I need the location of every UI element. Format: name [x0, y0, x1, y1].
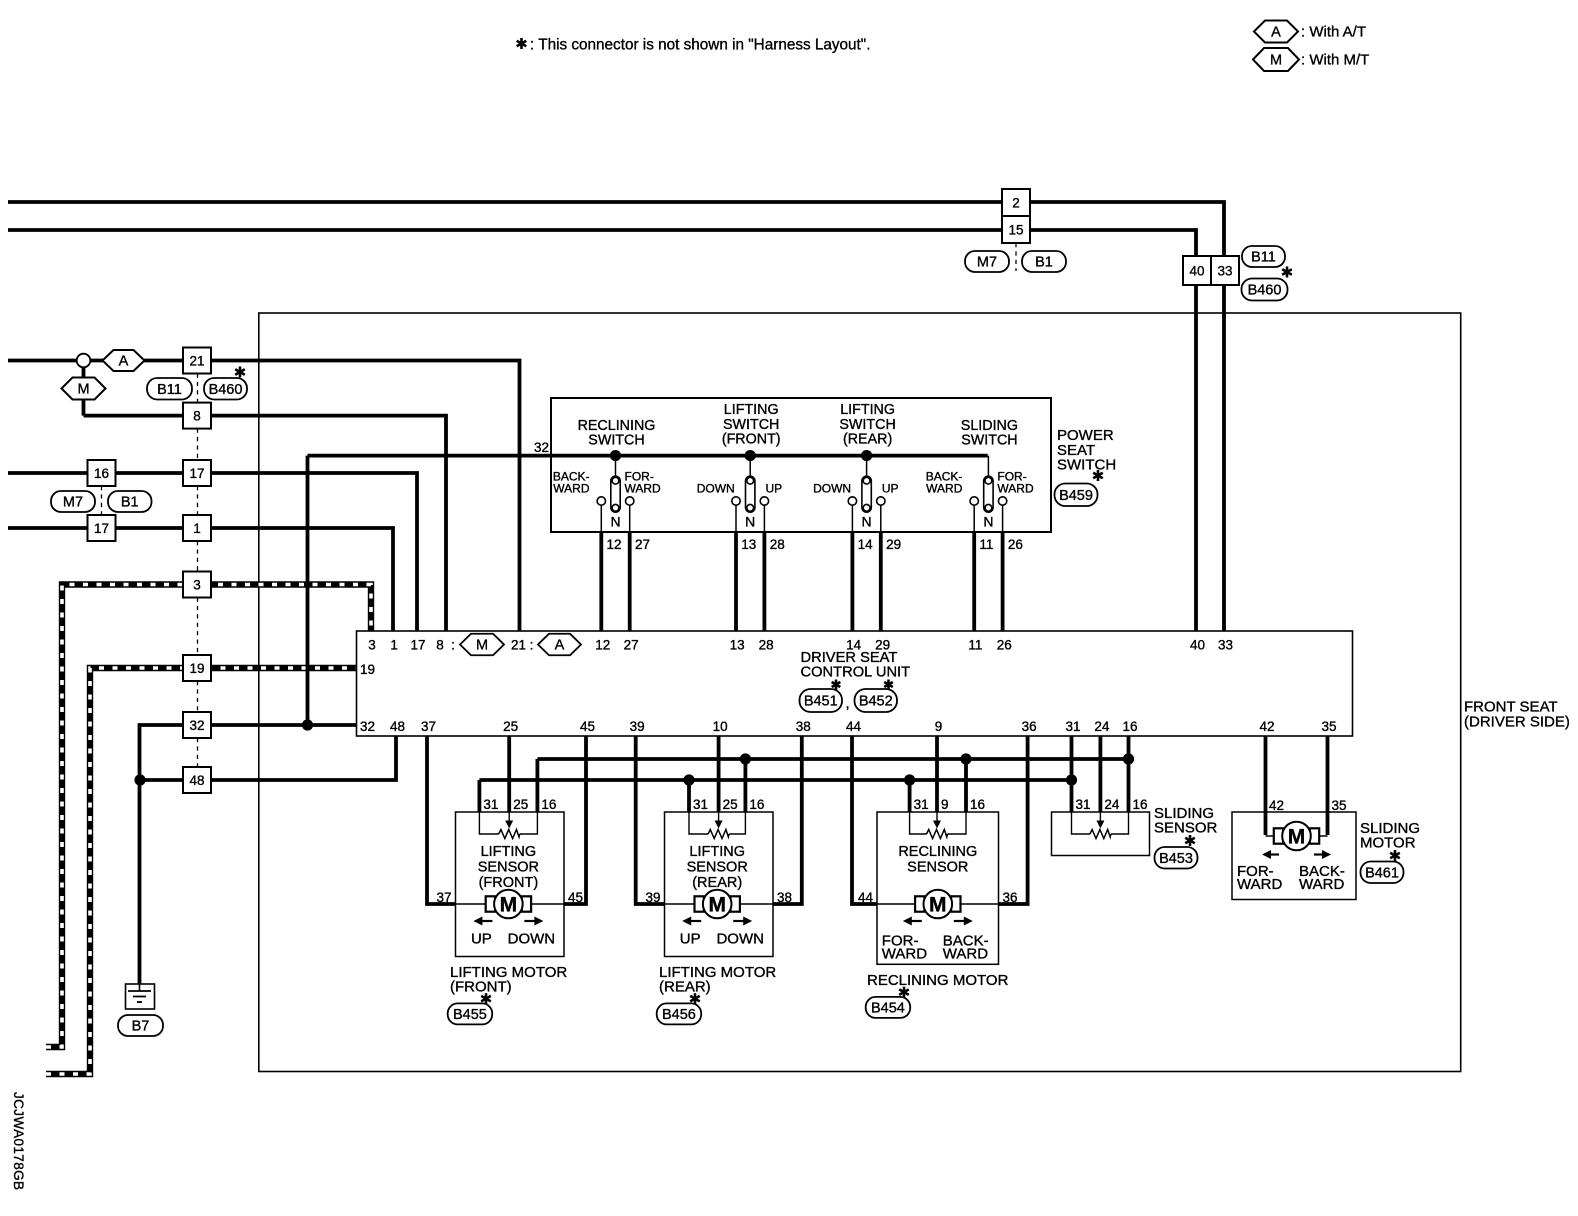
motor M symbol lifting motor rear: [695, 890, 740, 919]
svg-text:31: 31: [914, 797, 929, 812]
svg-text:: This connector is not shown: : This connector is not shown in "Harnes…: [530, 37, 870, 54]
connector oval B454: [866, 997, 911, 1018]
svg-text:37: 37: [421, 719, 436, 734]
label left contact BACK- WARD: [926, 470, 963, 496]
svg-text:UP: UP: [471, 931, 492, 948]
svg-text:17: 17: [410, 638, 425, 653]
svg-text:24: 24: [1104, 797, 1120, 812]
svg-text:M: M: [708, 894, 726, 917]
connector oval B459: [1055, 484, 1098, 507]
svg-text:WARD: WARD: [1237, 876, 1282, 893]
wire row C to pin 17: [8, 473, 417, 631]
wire pin 35 to sliding motor: [1326, 736, 1330, 835]
sensor pin labels 31 24 16 sliding: [1076, 797, 1148, 812]
asterisk B461: [1390, 850, 1400, 861]
motor feed line lifting motor front: [456, 903, 565, 905]
svg-text:B7: B7: [132, 1019, 150, 1035]
motor M symbol lifting motor front: [486, 890, 531, 919]
wire bus2 drop to lifting sensor front 31: [477, 780, 481, 812]
svg-text:19: 19: [189, 661, 204, 676]
hexagon M at pin 8: [460, 634, 504, 656]
arrow right reclining motor: [954, 917, 973, 926]
svg-text:SENSOR: SENSOR: [1154, 820, 1218, 837]
box lifting motor rear: [665, 812, 774, 957]
svg-text:39: 39: [630, 719, 645, 734]
sliding motor pin labels 42 35: [1269, 798, 1347, 813]
dashed link 32-48: [197, 738, 199, 767]
svg-text:LIFTING: LIFTING: [481, 844, 537, 860]
svg-text:UP: UP: [766, 482, 783, 496]
junction circle connector: [77, 354, 91, 368]
connector box pin 48: [183, 767, 211, 793]
wire pin 36 to reclining motor: [999, 736, 1028, 904]
svg-text:14: 14: [858, 537, 874, 552]
motor M symbol sliding motor: [1274, 822, 1319, 851]
component label lifting motor rear: [659, 964, 776, 995]
svg-text:48: 48: [189, 773, 204, 788]
asterisk B460 left: [235, 367, 245, 378]
asterisk B455: [481, 993, 491, 1004]
wire bus2 drop to lifting sensor rear 31: [687, 780, 691, 812]
position sensor potentiometer lifting motor rear: [689, 812, 745, 839]
svg-text:31: 31: [1065, 719, 1080, 734]
svg-text:(FRONT): (FRONT): [722, 432, 781, 448]
label right contact UP: [766, 482, 783, 496]
label switch name LIFTING SWITCH (FRONT): [722, 402, 781, 447]
connector box pin 32: [183, 712, 211, 738]
svg-text:35: 35: [1332, 798, 1347, 813]
svg-text:(REAR): (REAR): [692, 875, 742, 891]
sensor pin labels 31 937 16 for reclining motor: [914, 797, 985, 812]
wire pin 39 to lifting motor rear: [636, 736, 665, 904]
svg-text:B461: B461: [1365, 865, 1399, 881]
svg-text:17: 17: [189, 466, 204, 481]
dashed link 16-17 left: [101, 486, 103, 515]
wire pin 9 to reclining sensor: [935, 736, 939, 812]
svg-text:B11: B11: [1251, 250, 1276, 266]
connector oval B1 left: [108, 491, 152, 512]
position sensor potentiometer lifting motor front: [479, 812, 537, 839]
wire row A to pin 21: [8, 361, 520, 632]
wire bus 1 pin 16 net: [537, 757, 1128, 761]
wire switch pin 11 to control unit: [972, 532, 976, 631]
svg-text:B1: B1: [1035, 255, 1053, 271]
wire switch pin 12 to control unit: [599, 532, 603, 631]
connector oval B1 top: [1022, 251, 1066, 272]
svg-text:DOWN: DOWN: [697, 482, 735, 496]
svg-text:N: N: [862, 514, 872, 530]
connector oval B452: [855, 689, 898, 712]
position sensor potentiometer sliding: [1072, 812, 1129, 839]
svg-text:40: 40: [1189, 264, 1204, 279]
svg-text:B452: B452: [859, 694, 893, 710]
wire bus 2 pin 31 net: [479, 778, 1071, 782]
svg-text:33: 33: [1217, 264, 1232, 279]
svg-text:RECLINING: RECLINING: [578, 418, 656, 434]
sensor pin labels 31 718.6 16 for lifting motor rear: [693, 797, 764, 812]
svg-text:B456: B456: [662, 1007, 696, 1023]
wire switch pin 27 to control unit: [628, 532, 632, 631]
hexagon A on row A: [103, 350, 145, 371]
svg-text:M: M: [929, 894, 947, 917]
striped wire row E to pin 3: [46, 585, 371, 1048]
svg-text:9: 9: [941, 797, 949, 812]
svg-text:DOWN: DOWN: [508, 931, 556, 948]
svg-text:16: 16: [1122, 719, 1137, 734]
wire pin 32 to ground: [140, 725, 357, 985]
wire pin 16 down through bus 1: [1127, 736, 1131, 812]
svg-text:(FRONT): (FRONT): [479, 875, 539, 891]
wire row D to pin 1: [8, 528, 393, 631]
box sliding sensor: [1052, 812, 1150, 856]
svg-text:B454: B454: [871, 1000, 905, 1016]
svg-text:WARD: WARD: [997, 482, 1034, 496]
dashed link 21-8: [197, 374, 199, 403]
svg-text:27: 27: [624, 638, 639, 653]
connector oval M7 left: [51, 491, 95, 512]
motor M symbol reclining motor: [915, 890, 960, 919]
connector box pin 1: [183, 515, 211, 541]
junction dot bus at reclining switch: [610, 450, 621, 461]
junction dot bus2 at pin31: [1066, 774, 1077, 785]
svg-text:B451: B451: [804, 694, 838, 710]
connector oval B451: [800, 689, 843, 712]
wire switch pin 26 to control unit: [1001, 532, 1005, 631]
striped wire row F to pin 19: [46, 668, 357, 1074]
connector oval B461: [1361, 862, 1404, 884]
connector box pin 40: [1183, 256, 1211, 285]
svg-text::: :: [451, 638, 455, 653]
position sensor potentiometer reclining motor: [910, 812, 966, 839]
connector box pin 15: [1002, 216, 1030, 243]
box lifting motor front: [456, 812, 565, 957]
svg-text:(REAR): (REAR): [659, 978, 711, 995]
dashed link 8-17: [197, 429, 199, 460]
svg-text:1: 1: [390, 638, 398, 653]
label left contact DOWN: [697, 482, 735, 496]
control unit pin label 21 with hexagon A: [511, 638, 533, 653]
svg-text:M: M: [1270, 53, 1282, 69]
wire pin 10 to lifting sensor rear: [717, 736, 721, 812]
svg-text::: :: [530, 638, 534, 653]
svg-text:21: 21: [511, 638, 526, 653]
ground symbol body earth: [126, 984, 155, 1009]
svg-text:36: 36: [1022, 719, 1037, 734]
wire switch pin 13 to control unit: [734, 532, 738, 631]
svg-text:21: 21: [189, 354, 204, 369]
svg-text:9: 9: [935, 719, 943, 734]
junction dot bus at lifting-(rear) switch: [861, 450, 872, 461]
wire pin 38 to lifting motor rear: [773, 736, 802, 904]
legend hexagon A: [1254, 21, 1298, 43]
svg-text:25: 25: [513, 797, 528, 812]
wire switch pin 14 to control unit: [851, 532, 855, 631]
dashed link 19-32: [197, 681, 199, 712]
switch Lifting 750.2: [732, 456, 769, 532]
connector oval B453: [1155, 847, 1198, 869]
motor direction labels reclining motor: [882, 933, 989, 963]
svg-text:B455: B455: [453, 1007, 487, 1023]
svg-text:1: 1: [193, 521, 201, 536]
connector oval B455: [448, 1003, 493, 1024]
connector oval B11 left: [147, 378, 192, 400]
svg-text:: With M/T: : With M/T: [1301, 52, 1369, 69]
junction dot bus1 at pin16: [1123, 753, 1134, 764]
wire pin 45 to lifting motor front: [564, 736, 586, 904]
svg-text:8: 8: [436, 638, 444, 653]
svg-text:SWITCH: SWITCH: [588, 433, 644, 449]
connector box pin 3: [183, 572, 211, 598]
connector oval B460 left: [204, 378, 247, 400]
sensor name label lifting motor front: [478, 844, 539, 891]
svg-text:28: 28: [759, 638, 774, 653]
svg-text:38: 38: [796, 719, 811, 734]
arrow left sliding motor: [1262, 850, 1279, 859]
note asterisk: [517, 38, 527, 49]
svg-text:15: 15: [1008, 223, 1023, 238]
connector box pin 17 left: [88, 515, 116, 541]
svg-text:3: 3: [193, 578, 201, 593]
svg-text:10: 10: [713, 719, 728, 734]
svg-text:16: 16: [541, 797, 556, 812]
svg-text:38: 38: [777, 890, 792, 905]
connector box pin 8: [183, 403, 211, 429]
svg-text:45: 45: [568, 890, 583, 905]
svg-text:45: 45: [580, 719, 595, 734]
connector oval B7 ground: [118, 1015, 163, 1036]
arrow left lifting motor rear: [682, 917, 701, 926]
svg-text:11: 11: [979, 537, 993, 552]
motor direction labels lifting motor front: [471, 931, 555, 948]
svg-text:SENSOR: SENSOR: [907, 860, 968, 876]
wire switch common bus pin 32: [308, 454, 988, 458]
label right contact FOR- WARD: [997, 470, 1034, 496]
svg-text:42: 42: [1269, 798, 1284, 813]
wire power feed via pin 15 to pin 40: [8, 230, 1196, 631]
junction dot bus2 at 689: [683, 774, 694, 785]
connector box pin 33: [1211, 256, 1239, 285]
label right contact FOR- WARD: [625, 470, 662, 496]
svg-text:A: A: [1271, 25, 1281, 41]
svg-text:25: 25: [723, 797, 738, 812]
svg-text:12: 12: [607, 537, 622, 552]
svg-text:14: 14: [846, 638, 862, 653]
box sliding motor: [1232, 812, 1356, 900]
legend hexagon M: [1253, 48, 1299, 71]
svg-text:: With A/T: : With A/T: [1301, 24, 1366, 41]
svg-text:44: 44: [858, 890, 874, 905]
svg-text:33: 33: [1218, 638, 1233, 653]
label left contact BACK- WARD: [553, 470, 590, 496]
svg-text:SWITCH: SWITCH: [723, 417, 779, 433]
svg-text:SENSOR: SENSOR: [687, 860, 748, 876]
svg-text:40: 40: [1190, 638, 1205, 653]
arrow right sliding motor: [1314, 850, 1331, 859]
switch Lifting 866.6: [848, 456, 885, 532]
asterisk B451: [832, 680, 841, 690]
svg-text:RECLINING MOTOR: RECLINING MOTOR: [867, 972, 1009, 989]
svg-text:31: 31: [483, 797, 498, 812]
wire row B to pin 8: [84, 416, 447, 631]
svg-text:13: 13: [741, 537, 756, 552]
wire bus1 drop to reclining sensor 16: [964, 759, 968, 812]
svg-text:N: N: [610, 514, 620, 530]
svg-text:11: 11: [968, 638, 982, 653]
svg-text:35: 35: [1321, 719, 1336, 734]
svg-text:(DRIVER SIDE): (DRIVER SIDE): [1464, 714, 1570, 731]
dashed link 3-19: [197, 598, 199, 656]
svg-text:RECLINING: RECLINING: [898, 844, 977, 860]
motor feed line lifting motor rear: [665, 903, 774, 905]
svg-text:42: 42: [1259, 719, 1274, 734]
svg-text:,: ,: [846, 695, 850, 712]
connector oval B11 right: [1242, 246, 1285, 267]
svg-text:M7: M7: [977, 255, 997, 271]
svg-text:27: 27: [635, 537, 650, 552]
svg-text:LIFTING: LIFTING: [724, 402, 779, 418]
power seat switch box: [551, 398, 1051, 532]
arrow right lifting motor front: [524, 917, 543, 926]
wire pin 25 to lifting sensor front: [507, 736, 511, 812]
front seat (driver side) enclosure box: [259, 313, 1461, 1072]
label switch name LIFTING SWITCH (REAR): [839, 402, 895, 447]
connector oval B460 right: [1242, 279, 1288, 301]
svg-text:37: 37: [436, 890, 451, 905]
wire pin 42 to sliding motor: [1264, 736, 1268, 835]
svg-text:WARD: WARD: [625, 482, 662, 496]
svg-text:M: M: [77, 382, 89, 398]
switch Sliding 988.4: [970, 456, 1007, 532]
svg-text:32: 32: [360, 719, 375, 734]
wire branch A/T to M/T junction: [82, 361, 86, 416]
svg-text:M7: M7: [63, 495, 83, 511]
svg-text:M: M: [1288, 826, 1306, 849]
svg-text:A: A: [555, 638, 565, 654]
svg-text:WARD: WARD: [882, 946, 927, 963]
svg-text:32: 32: [534, 440, 549, 455]
label switch name SLIDING SWITCH: [961, 418, 1018, 449]
svg-text:16: 16: [749, 797, 764, 812]
arrow left reclining motor: [903, 917, 922, 926]
svg-text:26: 26: [997, 638, 1012, 653]
switch Reclining 615.5: [597, 456, 634, 532]
svg-text:WARD: WARD: [943, 946, 988, 963]
svg-text:36: 36: [1003, 890, 1018, 905]
svg-text:DOWN: DOWN: [813, 482, 851, 496]
svg-text:3: 3: [368, 638, 376, 653]
connector box pin 2: [1002, 189, 1030, 216]
svg-text:MOTOR: MOTOR: [1360, 835, 1416, 852]
wire pin 24 to sliding sensor: [1099, 736, 1103, 812]
wire pin 48 to ground net: [140, 736, 396, 780]
svg-text:SENSOR: SENSOR: [478, 860, 539, 876]
motor direction labels sliding motor: [1237, 863, 1345, 893]
svg-text:SWITCH: SWITCH: [839, 417, 895, 433]
junction dot pin32 net: [302, 719, 313, 730]
svg-text:31: 31: [1076, 797, 1091, 812]
motor feed line reclining motor: [877, 903, 999, 905]
motor direction labels lifting motor rear: [680, 931, 764, 948]
junction dot bus2 at 909: [904, 774, 915, 785]
svg-text:13: 13: [730, 638, 745, 653]
label left contact DOWN: [813, 482, 851, 496]
svg-text:B453: B453: [1159, 851, 1193, 867]
dashed link 1-3: [197, 541, 199, 572]
connector box pin 17 mid: [183, 460, 211, 486]
svg-text:25: 25: [503, 719, 518, 734]
svg-text:16: 16: [970, 797, 985, 812]
junction dot bus at lifting-(front) switch: [745, 450, 756, 461]
hexagon A at pin 21: [538, 634, 581, 656]
sensor pin labels 31 509.2 16 for lifting motor front: [483, 797, 556, 812]
component label reclining motor: [867, 972, 1009, 989]
svg-text:17: 17: [94, 521, 109, 536]
junction dot pin48-ground: [134, 774, 145, 785]
svg-text:(REAR): (REAR): [843, 432, 892, 448]
hexagon M on branch: [62, 378, 106, 400]
svg-text:26: 26: [1008, 537, 1023, 552]
svg-text:A: A: [119, 354, 129, 370]
svg-text:31: 31: [693, 797, 708, 812]
svg-text:M: M: [476, 638, 488, 654]
wire switch pin 29 to control unit: [879, 532, 883, 631]
svg-text:WARD: WARD: [1299, 876, 1344, 893]
svg-text:32: 32: [189, 718, 204, 733]
wire bus2 drop to reclining sensor 31: [908, 780, 912, 812]
svg-text:B1: B1: [121, 495, 139, 511]
wire pin 31 down through bus 2: [1070, 736, 1074, 812]
arrow right lifting motor rear: [733, 917, 752, 926]
asterisk B460 right: [1282, 267, 1292, 278]
svg-text:2: 2: [1012, 196, 1020, 211]
svg-text:19: 19: [360, 662, 375, 677]
svg-text:SLIDING: SLIDING: [961, 418, 1018, 434]
svg-text:16: 16: [1133, 797, 1148, 812]
svg-text:B460: B460: [209, 382, 243, 398]
wire bus1 drop to lifting sensor front 16: [536, 759, 540, 812]
svg-text:39: 39: [645, 890, 660, 905]
wire pin 37 to lifting motor front: [427, 736, 456, 904]
wire switch pin 28 to control unit: [763, 532, 767, 631]
svg-text:UP: UP: [680, 931, 701, 948]
svg-text:CONTROL UNIT: CONTROL UNIT: [801, 665, 911, 681]
wire switch bus down to pin32 net: [306, 456, 310, 725]
component label lifting motor front: [450, 964, 567, 995]
label right contact UP: [882, 482, 899, 496]
wire bus1 drop to lifting sensor rear 16: [744, 759, 748, 812]
svg-text:(FRONT): (FRONT): [450, 978, 512, 995]
asterisk B452: [884, 680, 893, 690]
connector oval M7 top: [965, 251, 1009, 272]
svg-text:N: N: [745, 514, 755, 530]
asterisk B453: [1185, 835, 1195, 846]
asterisk B454: [899, 987, 909, 998]
svg-text:B459: B459: [1059, 488, 1093, 504]
svg-text:DOWN: DOWN: [716, 931, 764, 948]
sensor name label lifting motor rear: [687, 844, 748, 891]
connector oval B456: [657, 1003, 702, 1024]
box reclining motor: [877, 812, 999, 964]
svg-text:WARD: WARD: [926, 482, 963, 496]
svg-text:LIFTING: LIFTING: [689, 844, 745, 860]
svg-text:B11: B11: [157, 382, 182, 398]
sensor name label reclining motor: [898, 844, 977, 876]
wire power feed via pin 2 to pin 33: [8, 202, 1224, 631]
asterisk B456: [690, 993, 700, 1004]
asterisk B459: [1093, 470, 1103, 481]
svg-text:LIFTING: LIFTING: [840, 402, 895, 418]
svg-text:SWITCH: SWITCH: [961, 433, 1017, 449]
